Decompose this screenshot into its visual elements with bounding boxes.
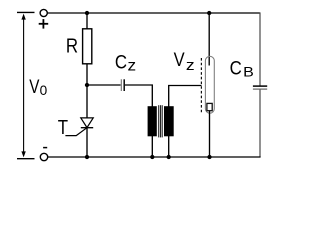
wire secondary top [169, 86, 202, 107]
capacitor CB [253, 86, 267, 89]
V0 voltage arrow top bar [17, 11, 35, 13]
svg-text:R: R [66, 36, 78, 58]
svg-text:C: C [230, 57, 242, 79]
V0 voltage arrow bottom bar [17, 158, 35, 160]
wire bottom rail [48, 156, 261, 158]
node D: bottom rail / primary junction [150, 155, 154, 159]
node F: top rail / flash tube junction [207, 11, 211, 15]
thyristor T [65, 118, 93, 136]
wire right edge upper (to CB) [259, 12, 261, 86]
wire from R to mid junction [86, 64, 88, 85]
wire secondary to bottom rail [168, 136, 170, 157]
terminal + (open circle, top left) [40, 9, 47, 16]
svg-text:V: V [174, 49, 185, 71]
wire primary to bottom rail [151, 136, 153, 157]
wire mid junction to Cz [87, 84, 121, 86]
svg-text:V: V [29, 76, 39, 98]
node E: bottom rail / secondary junction [167, 155, 171, 159]
transformer core [159, 105, 163, 137]
capacitor Cz [121, 79, 124, 91]
node B: mid junction (R / Cz / thyristor) [85, 83, 89, 87]
svg-text:z: z [186, 58, 195, 74]
svg-text:C: C [115, 51, 127, 73]
node A: top rail / R branch junction [85, 11, 89, 15]
wire Cz to transformer primary [125, 85, 152, 107]
svg-text:T: T [58, 117, 68, 139]
wire top rail to flash tube anode [208, 13, 210, 66]
label Cz [115, 51, 136, 74]
resistor R [83, 29, 92, 64]
node C: bottom rail / thyristor junction [85, 155, 89, 159]
flash tube cathode electrode [207, 103, 212, 110]
node G: bottom rail / flash tube junction [207, 155, 211, 159]
terminal - (open circle, bottom left) [40, 153, 47, 160]
flash tube trigger electrode (dashed) [200, 58, 202, 113]
transformer primary winding [148, 106, 157, 136]
wire right edge lower (from CB) [259, 89, 261, 157]
svg-text:0: 0 [40, 82, 48, 98]
svg-text:B: B [243, 63, 254, 79]
label V0 [29, 76, 47, 98]
wire top rail [47, 12, 260, 14]
wire from top rail to R [86, 13, 88, 30]
label Vz [174, 49, 195, 74]
wire mid junction to thyristor [86, 85, 88, 118]
label CB [230, 57, 254, 79]
transformer secondary winding [164, 106, 174, 136]
flash tube Vz envelope [205, 56, 214, 113]
label + sign [39, 19, 49, 29]
wire flash tube cathode to bottom rail [209, 111, 211, 157]
label - sign [43, 147, 47, 149]
svg-text:z: z [128, 58, 137, 75]
V0 voltage arrow (double headed) [21, 14, 25, 158]
wire thyristor to bottom rail [86, 128, 88, 157]
